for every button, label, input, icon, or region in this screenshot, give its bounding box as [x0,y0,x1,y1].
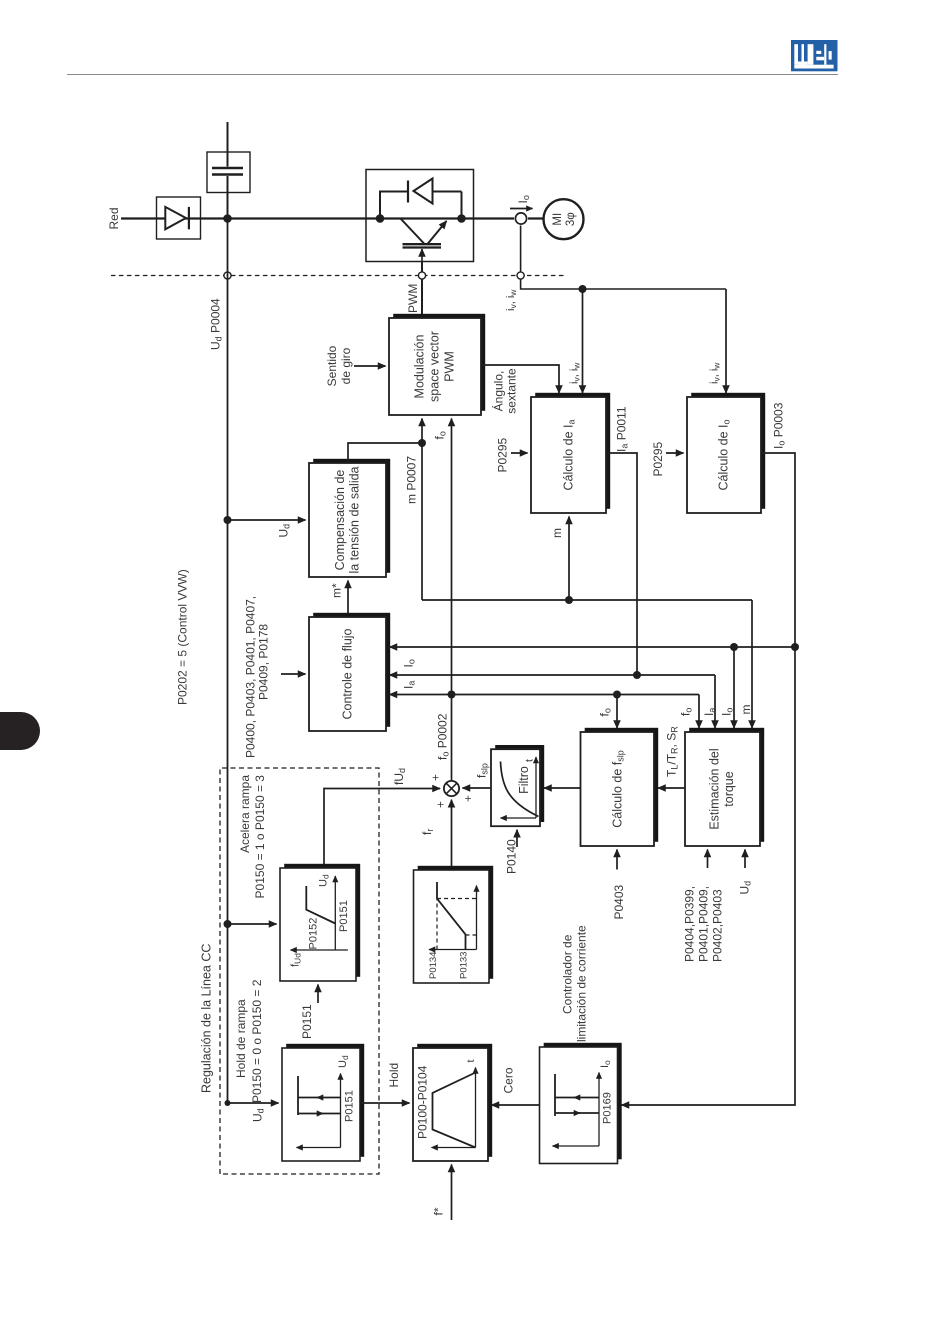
svg-text:fslp: fslp [475,763,490,778]
label P0152 [308,918,320,950]
label Hold de rampa [234,979,264,1103]
block Controle de flujo [309,613,390,731]
wire Ud to Compensacion [228,519,306,521]
wire Angulo sextante to Calculo de Ia [481,365,559,393]
wire Ud into Acelera [228,923,277,925]
svg-text:Io: Io [516,195,531,203]
wire Ud bus [227,219,229,1104]
wire m-star Controle to Compensacion [347,581,349,618]
node m P0007 junction [418,439,426,447]
wire m to Estimacion [751,600,753,728]
block Filtro [491,745,544,826]
wire power rail [121,217,544,219]
svg-text:P0409, P0178: P0409, P0178 [257,624,271,700]
wire m P0007 net [348,419,752,601]
svg-text:Ia: Ia [402,681,417,689]
svg-text:PWM: PWM [406,284,420,313]
label Ia at Estimacion [702,708,717,716]
label fo at Estimacion [679,708,694,716]
label P0295 at Io [651,441,665,476]
wire P0295 into Calculo de Io [666,452,684,454]
wire P0295 into Calculo de Ia [511,452,528,454]
wire fo output to Modulacion [451,419,453,781]
label m at Estimacion [739,705,753,715]
node measurement circle on Ud line [224,272,231,279]
svg-text:P0134: P0134 [428,952,439,979]
wire Cero from limiter to ramp [492,1104,540,1106]
node IGBT collector junction [376,214,385,223]
label Io P0169 axis [599,1060,612,1068]
svg-text:Compensación de: Compensación de [333,470,347,571]
label Ud Hold axis [337,1055,350,1068]
wire fslp Filtro to summing [463,787,492,789]
svg-text:t: t [465,1060,477,1063]
limiter curve [437,882,466,950]
block Calculo de Ia [531,393,610,513]
svg-text:iv, iw: iv, iw [569,362,582,384]
summing junction circle [444,781,459,796]
svg-text:m: m [550,528,564,538]
label PWM [406,284,420,313]
svg-text:Filtro: Filtro [517,766,531,794]
label Io at Estimacion [720,708,735,716]
svg-text:Ia P0011: Ia P0011 [615,406,630,452]
svg-text:P0404,P0399,: P0404,P0399, [683,886,697,962]
rectifier diode D1 box [157,197,201,239]
label Ud Acelera axis [318,874,331,887]
svg-text:Ud: Ud [277,524,292,538]
block Acelera rampa graph [280,864,360,981]
label m-star [330,583,344,598]
svg-text:fo P0002: fo P0002 [436,713,451,760]
wire TL TR SR from Estimacion to fslp [658,787,685,789]
wire Io branch to Estimacion [733,647,735,728]
svg-text:+: + [435,801,447,808]
label Hold [387,1063,401,1088]
svg-text:P0140: P0140 [505,839,519,874]
svg-text:P0133: P0133 [459,952,470,979]
ramp graph axes [432,1068,476,1148]
block P0169 current limiter graph [540,1043,622,1164]
wire Hold to ramp [360,1102,410,1104]
svg-text:la tensión de salida: la tensión de salida [348,466,362,573]
svg-text:P0400, P0403, P0401, P0407,: P0400, P0403, P0401, P0407, [244,596,258,758]
P0169 hysteresis curve [555,1074,599,1116]
limiter dashed construction lines [437,899,477,950]
capacitor C1 box [207,152,250,193]
svg-text:P0401,P0409,: P0401,P0409, [697,886,711,962]
label TL over TR comma SR [665,726,680,777]
svg-text:Ia: Ia [702,708,717,716]
block U1 Modulacion space vector PWM [389,314,485,415]
svg-text:Io: Io [402,659,417,667]
block P0133 P0134 limiter graph [414,866,494,983]
svg-text:MI: MI [552,213,564,226]
block P0100-P0104 ramp [413,1044,492,1161]
node m branch to Calculo Ia [565,596,573,604]
wire Ia net vertical [390,674,716,676]
svg-text:P0152: P0152 [308,918,320,950]
node measurement circle on iv iw line [517,272,524,279]
P0169 graph axes [553,1073,600,1147]
svg-text:Acelera rampa: Acelera rampa [238,775,252,853]
block Calculo de fslp [581,728,659,846]
svg-text:PWM: PWM [443,351,457,382]
svg-text:fo: fo [679,708,694,716]
label fo P0002 [436,713,451,760]
svg-text:m: m [739,705,753,715]
label iv iw near Io block [709,362,722,384]
svg-text:fo: fo [598,708,613,716]
wire PWM gate line [421,262,423,319]
node Ud to Acelera junction [224,920,232,928]
svg-text:t: t [524,759,536,762]
label P0151 Hold [344,1090,356,1122]
label fr [420,829,435,835]
node Red (mains input label) [107,207,121,229]
node Ia junction [633,671,641,679]
label plus fUd [430,774,442,781]
svg-text:P0295: P0295 [651,441,665,476]
node fo branch to fslp [613,691,621,699]
label Ud P0004 [209,298,224,350]
svg-text:P0100-P0104: P0100-P0104 [416,1065,430,1139]
label P0404 P0399 P0401 P0409 P0402 P0403 [683,886,725,962]
Acelera graph curve [306,886,335,924]
label P0151 input [300,1004,314,1039]
svg-text:limitación de corriente: limitación de corriente [575,925,589,1042]
svg-text:+: + [463,795,475,802]
label P0202 = 5 Control VVW [176,569,190,705]
Hold graph hysteresis curve [298,1076,341,1115]
label P0295 at Ia [496,437,510,472]
svg-text:P0295: P0295 [496,437,510,472]
wire fslp to Filtro [544,787,581,789]
label P0133 [459,952,470,979]
wire Sentido de giro input [354,365,386,367]
svg-text:m P0007: m P0007 [405,456,419,504]
node Ud to Compensacion junction [224,516,232,524]
svg-text:fUd: fUd [392,768,407,785]
wire m to Calculo de Ia [568,517,570,601]
svg-text:Io P0003: Io P0003 [772,402,787,449]
label t axis ramp [465,1060,477,1063]
svg-text:Sentido: Sentido [325,345,339,386]
label Acelera rampa [238,775,267,899]
svg-text:Ud P0004: Ud P0004 [209,298,224,350]
label P0134 [428,952,439,979]
label Io output current arrow [510,195,533,208]
label fo at Modulacion [433,431,448,439]
wire iv iw to Calculo de Io [725,289,727,393]
wire fUd from Acelera to summing [324,789,440,869]
svg-text:3φ: 3φ [565,212,577,226]
transistor Q1 IGBT symbol [401,219,447,262]
wire Io net vertical [390,646,796,648]
block Estimacion del torque [685,728,764,846]
svg-text:P0202 = 5 (Control VVW): P0202 = 5 (Control VVW) [176,569,190,705]
svg-text:space vector: space vector [428,331,442,402]
label f-star [432,1207,446,1215]
freewheel diode D2 symbol [408,179,433,204]
svg-text:Ángulo,: Ángulo, [491,371,506,412]
svg-text:P0150 = 1 o P0150 = 3: P0150 = 1 o P0150 = 3 [253,775,267,899]
label P0140 [505,839,519,874]
svg-text:Modulación: Modulación [413,334,427,398]
wire P0151 into Acelera [317,985,319,1004]
wire Io P0003 output long return [622,453,796,1105]
inverter IGBT module box [366,170,474,262]
WEG logo [791,40,838,72]
node Io line junction on return line [791,643,799,651]
label m P0007 [405,456,419,504]
label Sentido de giro [325,345,353,386]
node fo junction on fo line [448,691,456,699]
svg-text:Ud: Ud [251,1108,266,1122]
svg-text:Cálculo de Io: Cálculo de Io [717,419,732,490]
Filtro axes [501,757,537,818]
svg-text:fr: fr [420,829,435,835]
svg-text:P0151: P0151 [338,900,350,932]
wire Ud into Hold [228,1102,279,1104]
node Ud corner to Hold [225,1100,231,1106]
wire Ia P0011 output [606,453,637,675]
block Hold de rampa graph [282,1044,364,1161]
label Controlador de limitacion de corriente [561,925,589,1042]
svg-text:Cálculo de fslp: Cálculo de fslp [611,750,626,828]
label fo at fslp block [598,708,613,716]
block Compensacion de la tension de salida [309,459,390,577]
wire P0404 group into Estimacion [707,850,709,869]
svg-text:sextante: sextante [505,368,519,414]
block Calculo de Io [687,393,765,513]
capacitor C1 plates [212,168,243,175]
wire parameters into Controle de flujo [281,673,306,675]
Hold graph axes [297,1074,341,1148]
label iv iw near Ia block [569,362,582,384]
svg-text:Cálculo de Ia: Cálculo de Ia [562,419,577,490]
label Regulacion de la Linea CC [200,944,214,1093]
label iv iw near sensor [505,289,518,311]
current sensor circle [515,213,526,224]
label t axis Filtro [524,759,536,762]
label fUd Acelera axis [290,953,303,967]
label P0400 P0403 P0401 P0407 [244,596,271,758]
svg-text:P0151: P0151 [300,1004,314,1039]
label P0151 Acelera [338,900,350,932]
svg-text:P0169: P0169 [602,1092,614,1124]
node Io line junction at Estimacion branch [730,643,738,651]
label Ud at Hold [251,1108,266,1122]
Filtro decay curve [501,762,539,817]
svg-text:torque: torque [722,771,736,806]
limiter graph axes [429,886,477,950]
svg-text:Red: Red [107,207,121,229]
svg-text:P0403: P0403 [612,884,626,919]
label fslp [475,763,490,778]
label Ud at Estimacion [738,881,753,895]
wire iv iw measurement tap [521,226,726,290]
svg-text:Hold: Hold [387,1063,401,1088]
svg-text:P0150 = 0 o P0150 = 2: P0150 = 0 o P0150 = 2 [250,979,264,1103]
label Ia below Controle [402,681,417,689]
dashed box Regulacion de la Linea CC [220,768,379,1174]
Acelera graph axes [291,876,348,950]
black side tab [0,712,40,750]
svg-text:P0402,P0403: P0402,P0403 [711,889,725,962]
label P0403 [612,884,626,919]
svg-text:Controlador de: Controlador de [561,934,575,1014]
svg-text:+: + [430,774,442,781]
svg-text:m*: m* [330,583,344,598]
label P0169 [602,1092,614,1124]
svg-text:TL/TR, SR: TL/TR, SR [665,726,680,777]
svg-text:Io: Io [720,708,735,716]
wire iv iw to Calculo de Ia [582,289,584,393]
wire fr from limiter to summing [451,800,453,870]
node measurement circle on PWM line [418,272,425,279]
node DC bus junction [223,214,232,223]
svg-text:fo: fo [433,431,448,439]
label Ud at Compensacion [277,524,292,538]
label plus fr [435,801,447,808]
wire freewheel diode branch [380,192,462,219]
label Ia P0011 [615,406,630,452]
ramp trapezoid curve [433,1073,476,1148]
header rule [67,74,838,75]
label Angulo sextante [491,368,519,414]
label Io below Controle [402,659,417,667]
wire fo down branch [452,695,700,729]
wire Ia branch to Estimacion [714,675,716,728]
wire P0140 into Filtro [516,830,518,847]
svg-text:f*: f* [432,1207,446,1215]
svg-text:Regulación de la Línea CC: Regulación de la Línea CC [200,944,214,1093]
svg-text:Hold de rampa: Hold de rampa [234,999,248,1078]
label Cero [502,1067,516,1093]
label m at Calculo Ia [550,528,564,538]
rectifier diode D1 symbol [165,207,189,229]
dashed separator line [111,275,566,277]
svg-text:iv, iw: iv, iw [709,362,722,384]
label plus fslp [463,795,475,802]
wire capacitor branch [227,122,229,219]
wire P0403 into fslp [616,850,618,870]
svg-text:de giro: de giro [339,347,353,384]
svg-text:P0151: P0151 [344,1090,356,1122]
svg-text:Ud: Ud [738,881,753,895]
wire fo up into Controle de flujo [390,694,452,696]
wire Ud into Estimacion [744,850,746,869]
node IGBT emitter junction [457,214,466,223]
svg-text:Controle de flujo: Controle de flujo [341,628,355,719]
label Io P0003 [772,402,787,449]
svg-text:iv, iw: iv, iw [505,289,518,311]
svg-text:Cero: Cero [502,1067,516,1093]
label fUd [392,768,407,785]
wire f-star input [451,1165,453,1221]
motor MI 3phi [544,199,584,239]
svg-text:Estimación del: Estimación del [708,748,722,829]
wire fo branch to Calculo de fslp [616,695,618,729]
node iv iw branch junction [579,285,587,293]
